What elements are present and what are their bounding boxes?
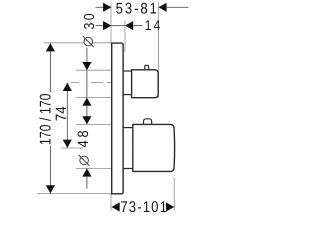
wall plate (escutcheon side view) xyxy=(112,43,123,194)
shut-off knob neck xyxy=(123,71,132,95)
thermostat knob neck xyxy=(123,128,133,169)
center line knob1 axis y=82.6 xyxy=(71,82,111,84)
svg-text:48: 48 xyxy=(75,128,92,148)
leader plate-bottom y=193.6 xyxy=(38,193,112,195)
leader plate-top y=42.8 xyxy=(44,42,111,44)
extension line 14-dim x=124.7 xyxy=(124,21,126,53)
leader 48-bottom y=168.3 xyxy=(76,167,112,169)
extension line wall/plate-left x=111 xyxy=(110,3,112,211)
dimension 170/170 left column xyxy=(38,43,55,193)
shut-off knob tab xyxy=(145,65,149,70)
svg-text:30: 30 xyxy=(82,11,98,29)
svg-text:53-81: 53-81 xyxy=(116,0,159,17)
leader knob2 axis y=148 xyxy=(61,147,82,149)
dimension 14 second row xyxy=(96,17,163,33)
dimension 53-81 top row xyxy=(96,0,189,17)
thermostat knob body xyxy=(133,124,175,171)
leader knob1-bottom y=97.6 xyxy=(76,97,111,99)
leader knob1-top y=70.2 xyxy=(76,69,111,71)
diameter symbol 48 xyxy=(79,155,90,166)
diameter symbol 30 xyxy=(83,36,94,47)
leader knob2-top y=124.4 xyxy=(76,123,111,125)
dimension diameter-48 column xyxy=(75,116,92,188)
dimension diameter-30 column xyxy=(82,11,98,117)
shut-off knob body xyxy=(132,70,159,98)
extension line 73-101 right x=174.2 xyxy=(173,178,175,211)
dimension 74 column xyxy=(53,83,72,148)
svg-text:14: 14 xyxy=(145,17,163,33)
svg-text:73-101: 73-101 xyxy=(120,199,168,216)
dimension 73-101 bottom row xyxy=(112,199,175,216)
thermostat knob tab xyxy=(144,119,152,125)
svg-text:74: 74 xyxy=(53,106,70,121)
extension line 53-81 right x=158.4 xyxy=(157,2,159,98)
